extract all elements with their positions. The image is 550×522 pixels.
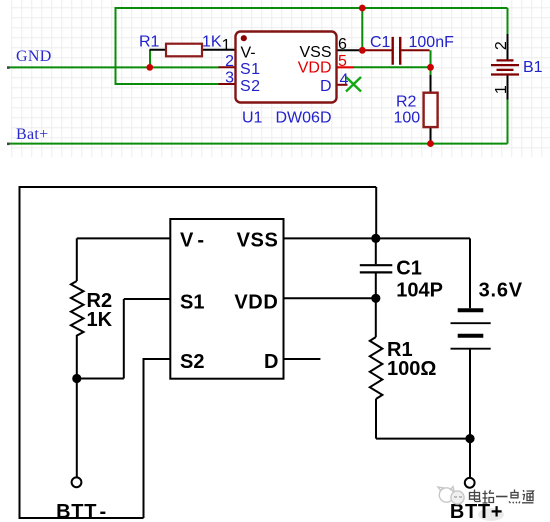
pin number 3 bbox=[225, 69, 234, 86]
pin name VDD (bottom) bbox=[234, 291, 278, 313]
no-connect X on pin 4 bbox=[346, 77, 361, 92]
svg-text:5: 5 bbox=[338, 53, 347, 70]
value 1K bbox=[202, 34, 222, 51]
capacitor C1 plates bbox=[366, 37, 430, 65]
wire bottom right bbox=[376, 438, 470, 440]
value 100nF bbox=[409, 34, 455, 51]
pin 5 stub VDD bbox=[337, 66, 355, 68]
battery pin number 2 bbox=[493, 41, 510, 50]
wire battery top green bbox=[507, 8, 509, 34]
terminal BTT- bbox=[72, 477, 82, 487]
wire R2 lead top black bbox=[430, 75, 432, 93]
junction dot Bat+/R2 bbox=[427, 140, 434, 147]
watermark logo bbox=[438, 487, 464, 505]
resistor R2 body bbox=[424, 93, 438, 127]
junction dot top rail bbox=[359, 5, 366, 12]
svg-text:4: 4 bbox=[340, 71, 349, 88]
resistor R2 (bottom) bbox=[71, 281, 84, 379]
pin name S2 bbox=[240, 78, 261, 95]
pin name V- bbox=[241, 44, 256, 61]
svg-text:6: 6 bbox=[338, 36, 347, 53]
part DW06D bbox=[276, 110, 332, 127]
wire top loop bbox=[20, 186, 377, 188]
wire R1 left to GND junction bbox=[149, 50, 151, 67]
svg-text:GND: GND bbox=[16, 48, 52, 65]
pin name S2 (bottom) bbox=[180, 351, 204, 373]
wire Bat+ net bbox=[9, 143, 508, 145]
wire R2 lead bottom black bbox=[430, 127, 432, 143]
wire R1 left lead black bbox=[150, 49, 167, 51]
pin name D (bottom) bbox=[264, 351, 278, 373]
pin name S1 bbox=[240, 61, 261, 78]
svg-text:S1: S1 bbox=[180, 291, 204, 313]
watermark text dian lu yi dian tong bbox=[470, 490, 534, 504]
wire end Bat+ bbox=[7, 143, 10, 146]
label BTT+ bbox=[450, 501, 503, 522]
wire BTT+ drop bbox=[469, 439, 471, 479]
wire VDD net (pin5 to C1/R2) bbox=[354, 66, 431, 68]
svg-text:1: 1 bbox=[493, 85, 510, 94]
svg-text:1: 1 bbox=[222, 37, 231, 54]
wire VDD pin (bottom) bbox=[284, 297, 376, 299]
label C1 bbox=[370, 34, 391, 51]
svg-text:VSS: VSS bbox=[299, 44, 331, 61]
wire C1 left vertical from top rail bbox=[361, 8, 363, 50]
svg-text:V-: V- bbox=[241, 44, 256, 61]
svg-text:R2: R2 bbox=[396, 93, 417, 110]
wire BTT- drop bbox=[76, 379, 78, 478]
wire C1 right drop bbox=[430, 50, 432, 67]
svg-text:100: 100 bbox=[394, 109, 421, 126]
svg-text:VDD: VDD bbox=[234, 291, 278, 313]
svg-text:U1: U1 bbox=[242, 110, 263, 127]
svg-text:R1: R1 bbox=[139, 34, 160, 51]
net label GND bbox=[16, 48, 52, 65]
junction dot VDD/C1 bbox=[371, 294, 380, 303]
pin 3 stub S2 bbox=[219, 83, 236, 85]
pin name VDD bbox=[298, 60, 332, 77]
svg-text:D: D bbox=[320, 78, 332, 95]
IC U1 body bbox=[236, 32, 337, 103]
value 1K (bottom) bbox=[87, 309, 113, 331]
svg-text:100Ω: 100Ω bbox=[387, 358, 436, 380]
wire S1 pin bbox=[77, 299, 171, 379]
pin name S1 (bottom) bbox=[180, 291, 204, 313]
pin number 4 bbox=[340, 71, 349, 88]
svg-text:DW06D: DW06D bbox=[276, 110, 332, 127]
wire V- pin bbox=[77, 238, 171, 281]
svg-text:104P: 104P bbox=[396, 279, 443, 301]
pin name VSS (bottom) bbox=[237, 230, 279, 252]
label R1 bbox=[139, 34, 160, 51]
label R1 (bottom) bbox=[387, 339, 413, 361]
resistor R1 (bottom) bbox=[370, 298, 383, 438]
junction dot R2/S1/BTT- bbox=[72, 374, 81, 383]
pin name V- (bottom) bbox=[180, 230, 204, 252]
pin name D bbox=[320, 78, 332, 95]
pin number 6 bbox=[338, 36, 347, 53]
wire U1 pin6 to C1 junction black bbox=[337, 49, 363, 51]
svg-text:3: 3 bbox=[225, 69, 234, 86]
pin number 5 bbox=[338, 53, 347, 70]
svg-text:S2: S2 bbox=[240, 78, 261, 95]
wire end GND bbox=[7, 66, 10, 69]
value 104P bbox=[396, 279, 443, 301]
IC body (bottom) bbox=[170, 219, 283, 379]
wire S2 riser bbox=[144, 359, 171, 518]
pin D stub (bottom) bbox=[284, 358, 321, 360]
svg-text:3.6V: 3.6V bbox=[479, 280, 523, 302]
battery B1 plates bbox=[491, 60, 519, 74]
label R2 bbox=[396, 93, 417, 110]
wire VSS to battery bbox=[284, 237, 471, 239]
junction dot pin6/C1 bbox=[359, 47, 366, 54]
label R2 (bottom) bbox=[87, 290, 113, 312]
value 100 bbox=[394, 109, 421, 126]
junction dot GND/R1 bbox=[146, 64, 153, 71]
battery 3.6V bbox=[451, 238, 491, 438]
wire R1 to U1 pin1 black bbox=[202, 49, 236, 51]
capacitor C1 (bottom) bbox=[360, 238, 393, 298]
wire R2 top stub bbox=[430, 67, 432, 75]
resistor R1 body bbox=[166, 44, 202, 57]
svg-text:V -: V - bbox=[180, 230, 204, 252]
value 100ohm bbox=[387, 358, 436, 380]
wire top rail drop bbox=[375, 187, 377, 238]
wire GND net bbox=[9, 66, 220, 68]
svg-text:1K: 1K bbox=[87, 309, 113, 331]
designator U1 bbox=[242, 110, 263, 127]
svg-text:2: 2 bbox=[493, 41, 510, 50]
label BTT- bbox=[56, 501, 107, 522]
terminal BTT+ bbox=[465, 478, 475, 488]
svg-text:VSS: VSS bbox=[237, 230, 279, 252]
pin 4 stub D bbox=[337, 84, 348, 86]
wire left loop bbox=[19, 186, 21, 518]
wire battery bottom green bbox=[507, 100, 509, 144]
svg-text:2: 2 bbox=[225, 53, 234, 70]
svg-text:S2: S2 bbox=[180, 351, 204, 373]
battery pin number 1 bbox=[493, 85, 510, 94]
wire battery lead top black bbox=[507, 34, 509, 60]
label B1 bbox=[523, 59, 543, 76]
svg-text:C1: C1 bbox=[396, 258, 422, 280]
svg-text:100nF: 100nF bbox=[409, 34, 455, 51]
watermark blob under BTT+ bbox=[478, 508, 504, 521]
net label Bat+ bbox=[16, 126, 48, 143]
value 3.6V bbox=[479, 280, 523, 302]
svg-text:VDD: VDD bbox=[298, 60, 332, 77]
pin number 2 bbox=[225, 53, 234, 70]
junction dot battery/R1 bbox=[465, 434, 474, 443]
wire top rail (net to S2/VSS/B1+) bbox=[115, 7, 508, 9]
wire left branch down to S2 bbox=[116, 8, 220, 84]
pin number 1 bbox=[222, 37, 231, 54]
svg-text:B1: B1 bbox=[523, 59, 543, 76]
pin 2 stub S1 bbox=[219, 66, 236, 68]
pin name VSS bbox=[299, 44, 331, 61]
label C1 (bottom) bbox=[396, 258, 422, 280]
junction dot VDD/C1/R2 bbox=[427, 64, 434, 71]
svg-text:C1: C1 bbox=[370, 34, 391, 51]
svg-text:Bat+: Bat+ bbox=[16, 126, 48, 143]
wire battery lead bottom black bbox=[507, 75, 509, 100]
svg-text:D: D bbox=[264, 351, 278, 373]
wire bottom loop bbox=[19, 517, 144, 519]
junction dot VSS/C1 bbox=[371, 234, 380, 243]
svg-text:1K: 1K bbox=[202, 34, 222, 51]
svg-text:S1: S1 bbox=[240, 61, 261, 78]
svg-text:BTT -: BTT - bbox=[56, 501, 107, 522]
